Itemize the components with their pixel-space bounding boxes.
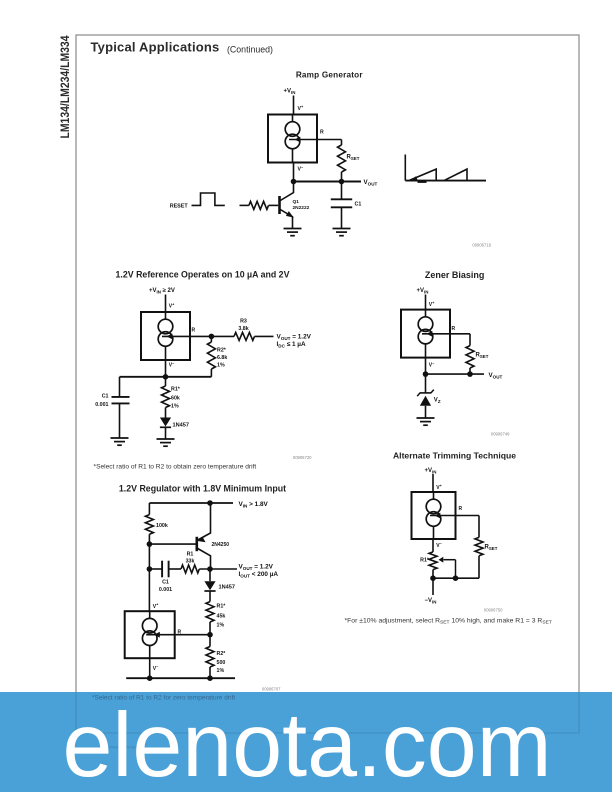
current source U LM334 (trim) (412, 492, 456, 539)
wire VIN to box (reference) (165, 295, 167, 313)
svg-text:+VIN: +VIN (417, 288, 429, 295)
wire box bottom to R1 (trim) (432, 539, 434, 552)
svg-text:R1*: R1* (171, 387, 181, 393)
resistor R2 (210, 336, 212, 342)
transistor Q1 2N2222 (280, 182, 294, 229)
svg-text:3.8k: 3.8k (238, 326, 248, 332)
ground below C1 (reference) (111, 437, 129, 439)
svg-text:00906719: 00906719 (472, 243, 491, 248)
node junction wiper (trim) (453, 575, 459, 581)
svg-text:RSET: RSET (476, 353, 489, 360)
resistor R2* 500 (regulator) (209, 635, 211, 647)
capacitor C1 (regulator) (148, 544, 150, 569)
ground below C1 (ramp) (333, 228, 351, 230)
wire R pin to divider node (regulator) (146, 634, 210, 636)
zener bar with bent ends (420, 392, 432, 394)
svg-text:1N457: 1N457 (173, 423, 190, 429)
svg-text:1.2V Reference Operates on 10: 1.2V Reference Operates on 10 µA and 2V (116, 269, 290, 279)
arrowhead into current source (zener) (427, 331, 433, 337)
wire R pin to RSET top (289, 139, 342, 141)
sawtooth output waveform (405, 155, 486, 183)
wire base feed (regulator) (149, 543, 195, 545)
capacitor C1 (reference) (119, 377, 121, 397)
wire R pin to node (reference) (162, 335, 211, 337)
svg-text:2N2222: 2N2222 (293, 205, 310, 211)
ground below diode (reference) (157, 438, 175, 440)
node junction rail left (regulator) (147, 675, 153, 681)
svg-text:Q1: Q1 (293, 199, 300, 205)
resistor 100k (148, 503, 150, 515)
resistor RSET (zener) (469, 334, 471, 346)
resistor R1 trim pot element (429, 552, 437, 570)
svg-text:1%: 1% (217, 362, 225, 368)
resistor R1 33k (regulator) (169, 568, 181, 570)
wire R pin to right branch (trim) (430, 515, 479, 517)
wire box bottom to node (zener) (425, 358, 427, 375)
svg-text:R1*: R1* (420, 558, 430, 564)
wire VIN to box (trim) (432, 474, 434, 492)
svg-text:0.001: 0.001 (95, 402, 108, 408)
svg-text:1.2V Regulator with 1.8V Minim: 1.2V Regulator with 1.8V Minimum Input (119, 484, 286, 494)
arrowhead into current source (ramp) (295, 137, 301, 143)
op current source U LM334 (ramp) (268, 115, 317, 163)
node junction RSET (zener) (467, 371, 473, 377)
ground (zener) (417, 417, 435, 419)
reset pulse waveform (192, 193, 225, 205)
svg-text:C1: C1 (355, 202, 362, 208)
arrowhead into current source (regulator) (154, 632, 160, 638)
wire top rail (regulator) (149, 502, 233, 504)
resistor base drive (ramp) (240, 204, 249, 206)
svg-text:1%: 1% (171, 404, 179, 410)
svg-text:C1: C1 (162, 580, 169, 586)
transistor Q 2N4250 (197, 503, 211, 569)
node junction top rail (regulator) (207, 500, 213, 506)
node junction R2 top (209, 334, 215, 340)
resistor R1* 45k (regulator) (206, 602, 214, 622)
svg-text:0.001: 0.001 (159, 587, 172, 593)
node junction divider (regulator) (207, 632, 213, 638)
wire VIN to box (zener) (425, 295, 427, 310)
svg-text:*Select ratio of R1 to R2 to o: *Select ratio of R1 to R2 to obtain zero… (94, 464, 257, 471)
page frame border (76, 35, 579, 733)
svg-text:LM134/LM234/LM334: LM134/LM234/LM334 (58, 35, 72, 138)
svg-text:+VIN: +VIN (284, 89, 296, 96)
faint frame lines through banner (76, 692, 579, 733)
svg-text:00906707: 00906707 (262, 686, 281, 691)
capacitor C1 (ramp) (341, 182, 343, 200)
svg-text:00906720: 00906720 (293, 455, 312, 460)
svg-text:+VIN: +VIN (425, 468, 437, 475)
wire box bottom to node (ramp) (293, 163, 295, 182)
svg-text:Typical Applications: Typical Applications (91, 40, 220, 55)
svg-text:Ramp Generator: Ramp Generator (296, 71, 364, 80)
svg-text:100k: 100k (156, 523, 168, 529)
wire output rail (ramp) (294, 181, 362, 183)
wire bottom rail (trim) (433, 577, 479, 579)
wire output rail (zener) (426, 373, 485, 375)
svg-text:VZ: VZ (434, 398, 441, 405)
svg-text:6.8k: 6.8k (217, 355, 227, 361)
svg-text:Alternate Trimming Technique: Alternate Trimming Technique (393, 450, 516, 460)
svg-text:R: R (320, 130, 324, 136)
svg-text:00906749: 00906749 (491, 432, 510, 437)
wire box bottom to node (reference) (165, 360, 167, 377)
watermark banner background (0, 692, 612, 792)
node junction rail right (regulator) (207, 675, 213, 681)
wire bottom rail (regulator) (126, 677, 235, 679)
resistor RSET (ramp) (341, 140, 343, 146)
wire R pin to RSET (zener) (422, 333, 470, 335)
svg-text:R: R (192, 328, 196, 334)
svg-text:500: 500 (217, 660, 226, 666)
svg-text:1%: 1% (217, 623, 225, 629)
current source U LM334 (regulator) (148, 569, 150, 611)
arrowhead into current source (trim) (435, 513, 441, 519)
svg-text:60k: 60k (171, 395, 180, 401)
current source U LM334 (zener) (401, 310, 450, 358)
node junction center (reference) (163, 374, 169, 380)
svg-text:R: R (452, 326, 456, 332)
wire box bottom to rail (regulator) (149, 658, 151, 678)
wire to -VIN (trim) (432, 578, 434, 595)
svg-text:R2*: R2* (217, 651, 227, 657)
svg-text:elenota.com: elenota.com (63, 695, 552, 792)
arrowhead into current source (reference) (167, 334, 173, 340)
svg-text:R1*: R1* (217, 604, 227, 610)
svg-text:45k: 45k (217, 613, 226, 619)
svg-text:−VIN: −VIN (425, 598, 437, 605)
node junction left (ramp) (291, 179, 297, 185)
svg-text:RESET: RESET (170, 203, 189, 209)
current source U LM334 (reference) (141, 312, 190, 360)
svg-text:(Continued): (Continued) (227, 45, 273, 55)
wire VIN to box (293, 96, 295, 115)
svg-text:RSET: RSET (347, 155, 360, 162)
diode 1N457 (regulator) (209, 569, 211, 581)
node junction base feed (regulator) (147, 541, 153, 547)
node junction R1 bottom (trim) (430, 575, 436, 581)
svg-text:1%: 1% (217, 668, 225, 674)
svg-text:R3: R3 (240, 319, 247, 325)
svg-text:2N4250: 2N4250 (212, 542, 230, 548)
svg-text:33k: 33k (186, 559, 195, 565)
resistor R1 (reference) (165, 377, 167, 386)
svg-text:Zener Biasing: Zener Biasing (425, 270, 485, 280)
node junction RSET/C1 (ramp) (339, 179, 345, 185)
header: Typical Applications (Continued) (91, 40, 274, 55)
node junction left (zener) (423, 371, 429, 377)
zener diode VZ (425, 374, 427, 393)
svg-text:C1: C1 (102, 394, 109, 400)
svg-text:1N457: 1N457 (219, 585, 236, 591)
svg-text:R: R (459, 506, 463, 512)
wire bottom rail (reference) (120, 376, 212, 378)
node junction output (regulator) (207, 566, 213, 572)
svg-text:R2*: R2* (217, 348, 227, 354)
ground below Q1 (284, 228, 302, 230)
svg-text:RSET: RSET (485, 545, 498, 552)
resistor R3 (211, 335, 234, 337)
resistor RSET (trim) (478, 516, 480, 538)
svg-text:00906750: 00906750 (484, 607, 503, 612)
pot wiper arrow (trim) (444, 559, 456, 561)
svg-text:R1: R1 (187, 552, 194, 558)
svg-text:+VIN ≥ 2V: +VIN ≥ 2V (149, 288, 175, 295)
diode 1N457 (reference) (165, 408, 167, 418)
